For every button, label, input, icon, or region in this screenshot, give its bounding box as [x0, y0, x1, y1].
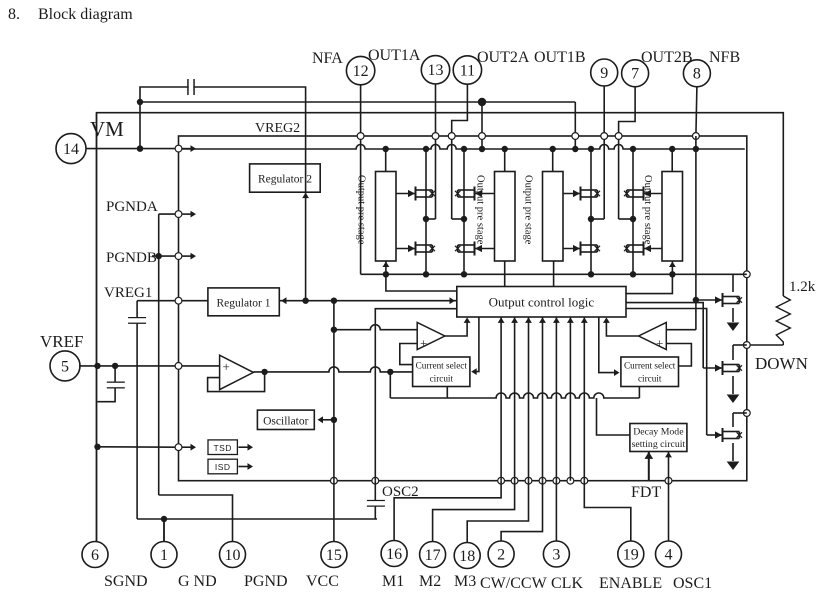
svg-text:circuit: circuit: [638, 374, 662, 384]
node PGNDA entry: [175, 211, 182, 218]
wire control to current select A: [475, 317, 479, 372]
wire OSC1 to decay block: [668, 452, 670, 481]
svg-text:Output pre stage: Output pre stage: [642, 175, 653, 245]
block Regulator 1: [208, 288, 279, 316]
wire 1.2k to block: [750, 344, 783, 346]
arrow into control logic: [498, 317, 505, 323]
wire rail to pre-stage: [552, 149, 554, 172]
capacitor C2 VREG1: [128, 318, 146, 323]
pin 19 ENABLE: [618, 541, 644, 567]
wire OSC2 cap branch: [374, 481, 376, 519]
junction: [261, 369, 267, 375]
wire control to Q10 gate: [626, 303, 703, 368]
block output pre stage 1: [376, 172, 397, 262]
junction PGNDB: [156, 253, 162, 259]
node boundary crossing: [567, 477, 574, 484]
wire VCC stub: [333, 481, 335, 542]
svg-text:3: 3: [552, 546, 560, 563]
node boundary crossing: [331, 477, 338, 484]
wire VREG1 to regulator1: [182, 300, 208, 302]
svg-text:OUT2B: OUT2B: [641, 49, 693, 66]
node boundary crossing: [743, 410, 750, 417]
svg-text:TSD: TSD: [213, 443, 232, 453]
wire VM drop right: [574, 102, 576, 149]
pin 13 OUT1A: [421, 56, 449, 84]
wire control signal: [569, 317, 571, 481]
junction: [550, 146, 556, 152]
svg-text:12: 12: [353, 63, 369, 80]
pin 10 PGND: [220, 542, 246, 568]
arrow FDT into decay block: [644, 452, 653, 459]
svg-text:Output control logic: Output control logic: [489, 295, 595, 310]
pin 4 OSC1: [656, 541, 682, 567]
node boundary crossing: [479, 133, 486, 140]
wire SGND frame to 1.2k: [97, 113, 784, 542]
junction: [137, 145, 143, 151]
wire VREG2 column: [305, 136, 307, 301]
junction: [94, 363, 100, 369]
pin 6 SGND: [82, 542, 108, 568]
wire control signal: [583, 317, 585, 481]
wire SGND left frame: [96, 113, 98, 541]
arrow OSC1 into decay block: [665, 452, 672, 458]
wire TSD out: [238, 446, 248, 448]
wire half-bridge column: [425, 149, 427, 274]
arrow current sink A: [727, 323, 740, 332]
pin 1 G ND: [151, 542, 177, 568]
wire to GND pin: [163, 519, 165, 541]
arrow into oscillator: [318, 416, 324, 423]
wire bus to current select B: [638, 386, 640, 398]
wire comparator A plus input: [400, 344, 417, 365]
wire VREG1: [137, 300, 175, 302]
arrow ISD out: [248, 463, 254, 470]
junction rail: [461, 146, 467, 152]
junction: [137, 145, 143, 151]
wire comparator B output: [606, 323, 638, 336]
svg-text:VREF: VREF: [40, 332, 83, 351]
node boundary crossing: [432, 133, 439, 140]
transistor Q7: [624, 187, 662, 201]
wire VREG1 cap branch: [136, 301, 138, 519]
node boundary crossing: [372, 477, 379, 484]
wire comparator A upper input: [334, 325, 417, 330]
svg-text:FDT: FDT: [631, 484, 661, 501]
wire rail to pre-stage: [671, 149, 673, 172]
capacitor C3 VREF: [107, 382, 125, 387]
wire control signal: [542, 317, 544, 481]
wire Q11 source: [732, 443, 734, 461]
wire OUT1A column: [435, 83, 437, 219]
pin 7 OUT2B: [622, 60, 649, 87]
wire OUT1B column: [603, 86, 605, 219]
wire OSC2 to control logic: [375, 309, 457, 481]
wire control signal: [514, 317, 516, 481]
wire VREF cap branch: [114, 366, 116, 382]
svg-text:Output pre stage: Output pre stage: [523, 175, 534, 245]
transistor Q6: [563, 242, 600, 256]
svg-text:NFA: NFA: [312, 50, 343, 67]
wire Q11 drain: [732, 413, 734, 427]
arrow TSD out: [248, 444, 254, 451]
wire control signal: [555, 317, 557, 481]
svg-text:Oscillator: Oscillator: [263, 415, 309, 427]
junction bus: [588, 271, 594, 277]
block TSD: [208, 440, 237, 455]
pin 16 M1: [381, 541, 407, 567]
wire comparator B upper input: [666, 329, 696, 331]
junction: [502, 146, 508, 152]
wire output tap: [619, 218, 633, 220]
pin 15 VCC: [321, 542, 347, 568]
svg-text:16: 16: [386, 546, 402, 563]
svg-text:6: 6: [91, 547, 99, 564]
wire Q9 source: [732, 308, 734, 322]
arrow PGNDA: [191, 211, 197, 218]
wire VM: [86, 148, 175, 150]
pin 17 M2: [420, 542, 446, 568]
svg-text:+: +: [223, 359, 230, 374]
transistor Q9 body: [696, 293, 742, 307]
svg-text:OUT1A: OUT1A: [368, 47, 421, 64]
junction bus: [423, 271, 429, 277]
arrow VM: [191, 145, 197, 152]
arrow into regulator2 bottom: [302, 193, 309, 199]
wire cap to SGND: [98, 388, 116, 402]
wire Q9 drain: [732, 274, 734, 292]
arrow current sink B: [727, 395, 740, 404]
wire pre-stage2 to control: [504, 261, 506, 287]
junction: [387, 369, 393, 375]
wire decay block input: [597, 398, 630, 435]
svg-text:VREG2: VREG2: [255, 121, 300, 136]
svg-text:OSC2: OSC2: [382, 484, 419, 500]
block Decay Mode setting circuit: [630, 424, 687, 452]
block Regulator 2: [250, 164, 321, 192]
wire ISD out: [238, 466, 248, 468]
svg-text:DOWN: DOWN: [755, 354, 808, 373]
junction output node: [630, 216, 636, 222]
svg-text:PGND: PGND: [244, 573, 288, 590]
svg-text:11: 11: [460, 62, 475, 79]
capacitor C1: [188, 78, 194, 96]
wire mode select bus: [390, 393, 639, 398]
junction: [669, 146, 675, 152]
junction: [693, 297, 699, 303]
node boundary crossing: [665, 477, 672, 484]
svg-text:OUT2A: OUT2A: [477, 49, 530, 66]
wire control to Q11 gate: [626, 309, 707, 436]
wire NFA sense column: [360, 84, 362, 274]
svg-text:2: 2: [497, 546, 505, 563]
svg-text:15: 15: [326, 547, 342, 564]
block output pre stage 2: [495, 172, 516, 262]
svg-text:1: 1: [160, 547, 168, 564]
wire Q11 drain to edge: [733, 412, 747, 414]
arrow into regulator1: [281, 297, 287, 304]
junction: [112, 363, 118, 369]
arrow into control logic: [525, 317, 532, 323]
pin 5 VREF: [50, 351, 80, 381]
svg-text:OSC1: OSC1: [673, 575, 712, 592]
wire Q10 drain to edge: [733, 344, 747, 346]
node boundary crossing: [525, 477, 532, 484]
arrow into current select B: [614, 369, 620, 376]
arrow PGNDB: [191, 253, 197, 260]
wire CW/CCW: [501, 481, 542, 541]
arrow into control logic: [553, 317, 560, 323]
pin 3 CLK: [543, 541, 569, 567]
svg-text:9: 9: [600, 65, 608, 82]
wire rail to pre-stage: [504, 149, 506, 172]
arrow into control logic: [567, 317, 574, 323]
arrow comparator A to control: [464, 317, 471, 323]
wire osc feed: [319, 419, 334, 421]
arrow into control logic: [581, 317, 588, 323]
pin 12 NFA: [346, 56, 374, 84]
wire op-amp output down: [389, 372, 391, 398]
wire M3: [467, 481, 528, 543]
transistor Q1: [396, 187, 435, 201]
svg-text:17: 17: [425, 547, 441, 564]
block Output control logic: [457, 287, 626, 318]
svg-text:5: 5: [61, 358, 69, 375]
svg-text:G ND: G ND: [178, 573, 217, 590]
arrow current sink C: [727, 462, 740, 471]
wire M2: [433, 481, 515, 542]
wire PGND bracket down: [158, 214, 160, 495]
arrow into pre-stage 4: [669, 262, 676, 268]
wire sense bus: [361, 273, 747, 275]
transistor Q10 body: [703, 361, 742, 375]
node boundary crossing: [743, 271, 750, 278]
wire output tap: [452, 218, 464, 220]
capacitor C4 OSC2: [367, 501, 385, 506]
junction rail: [588, 146, 594, 152]
svg-text:19: 19: [623, 546, 639, 563]
block output pre stage 3: [543, 172, 564, 262]
node boundary crossing: [615, 133, 622, 140]
wire PGNDB: [152, 255, 175, 257]
wire NFB drop: [696, 87, 697, 136]
block output pre stage 4: [662, 172, 683, 262]
wire regulator1 to control logic: [280, 300, 457, 302]
wire OUT2A column: [452, 84, 468, 219]
pin 9 OUT1B: [591, 59, 618, 86]
svg-text:18: 18: [459, 548, 475, 565]
block ISD: [208, 459, 237, 474]
svg-text:circuit: circuit: [430, 374, 454, 384]
transistor Q11 body: [707, 428, 742, 442]
node boundary crossing: [175, 444, 182, 451]
transistor Q3: [455, 187, 495, 201]
pin 2 CW/CCW: [488, 541, 514, 567]
junction bus: [630, 271, 636, 277]
wire VM bypass capacitor branch: [140, 87, 306, 148]
junction rail: [423, 146, 429, 152]
junction comparator feed: [331, 327, 337, 333]
wire output tap: [591, 218, 604, 220]
wire rail to pre-stage: [385, 149, 387, 172]
arrow into control logic: [511, 317, 518, 323]
junction: [669, 271, 675, 277]
wire comparator B plus input: [666, 344, 691, 367]
wire sense A to control: [386, 274, 457, 291]
svg-text:Block diagram: Block diagram: [38, 6, 133, 23]
transistor Q2: [396, 242, 435, 256]
node boundary crossing: [448, 133, 455, 140]
junction: [137, 99, 143, 105]
wire VREF to op-amp: [182, 365, 220, 367]
wire OUT2B column: [619, 87, 636, 219]
node boundary crossing: [693, 133, 700, 140]
comparator A: [417, 323, 445, 350]
svg-text:M2: M2: [419, 573, 441, 590]
svg-text:Current select: Current select: [416, 361, 468, 371]
node boundary crossing: [498, 477, 505, 484]
svg-text:14: 14: [63, 141, 79, 158]
wire comparator A output: [445, 323, 467, 336]
transistor Q5: [563, 187, 600, 201]
block Oscillator: [257, 410, 314, 429]
arrow into pre-stage 1: [382, 262, 389, 268]
svg-text:7: 7: [631, 66, 639, 83]
junction: [383, 146, 389, 152]
resistor R1 1.2k: [776, 296, 790, 345]
wire control signal: [528, 317, 530, 481]
wire TSD feed: [98, 446, 176, 448]
wire half-bridge column: [463, 149, 465, 274]
pin 8 NFB: [683, 60, 710, 87]
block Current select circuit B: [621, 357, 679, 387]
svg-text:SGND: SGND: [104, 573, 148, 590]
arrow into control logic: [539, 317, 546, 323]
wire op-amp feedback: [208, 372, 265, 392]
wire GND bus: [137, 518, 377, 520]
wire VM rail: [182, 145, 745, 150]
junction: [331, 298, 337, 304]
svg-text:Output pre stage: Output pre stage: [356, 175, 367, 245]
node boundary crossing: [357, 133, 364, 140]
node PGNDB entry: [175, 253, 182, 260]
junction GND pin: [161, 516, 167, 522]
svg-text:M1: M1: [382, 573, 404, 590]
wire op-amp output: [253, 367, 413, 372]
node boundary crossing: [175, 363, 182, 370]
comparator B: [639, 323, 667, 350]
junction output node: [588, 216, 594, 222]
junction: [478, 98, 486, 106]
svg-text:CLK: CLK: [551, 575, 583, 592]
wire VM top distribution: [140, 101, 575, 103]
wire ENABLE: [584, 481, 631, 541]
wire VM drop centre: [481, 102, 483, 149]
node boundary crossing: [175, 297, 182, 304]
wire VCC column: [333, 301, 335, 481]
svg-text:PGNDB: PGNDB: [106, 250, 157, 266]
junction oscillator feed: [331, 417, 337, 423]
wire control signal: [500, 317, 502, 481]
junction TSD feed: [94, 444, 100, 450]
svg-text:1.2k: 1.2k: [789, 279, 816, 295]
wire Q10 drain: [732, 345, 734, 360]
svg-text:Decay Mode: Decay Mode: [633, 427, 684, 438]
junction: [693, 146, 699, 152]
svg-text:8.: 8.: [8, 6, 20, 23]
svg-text:Regulator 1: Regulator 1: [217, 298, 271, 310]
junction: [302, 298, 308, 304]
wire OSC1: [668, 481, 670, 541]
svg-text:VCC: VCC: [306, 573, 339, 590]
svg-text:ENABLE: ENABLE: [599, 575, 662, 592]
svg-text:PGNDA: PGNDA: [106, 199, 158, 215]
node boundary crossing: [553, 477, 560, 484]
node VM entry: [175, 145, 182, 152]
svg-text:CW/CCW: CW/CCW: [480, 575, 548, 592]
wire Q10 source: [732, 376, 734, 394]
svg-text:VREG1: VREG1: [104, 285, 152, 301]
svg-text:VM: VM: [90, 117, 124, 141]
junction rail: [630, 146, 636, 152]
svg-text:8: 8: [693, 66, 701, 83]
wire PGNDA: [159, 213, 176, 215]
wire NFB column: [695, 136, 697, 330]
svg-text:NFB: NFB: [709, 49, 740, 66]
transistor Q8: [624, 242, 662, 256]
wire M1: [394, 481, 501, 541]
wire to PGND pin: [159, 495, 233, 541]
arrow into current select A: [471, 368, 477, 375]
svg-text:10: 10: [225, 547, 241, 564]
wire FDT: [648, 452, 650, 481]
junction output node: [423, 216, 429, 222]
wire sense B to control: [626, 274, 672, 293]
inner block boundary: [179, 136, 747, 481]
svg-text:ISD: ISD: [215, 462, 231, 472]
node boundary crossing: [511, 477, 518, 484]
node boundary crossing: [572, 133, 579, 140]
junction bus: [461, 271, 467, 277]
junction: [383, 271, 389, 277]
svg-text:OUT1B: OUT1B: [534, 49, 586, 66]
svg-text:Output pre stage: Output pre stage: [475, 175, 486, 245]
wire control to current select B: [599, 317, 614, 373]
wire CLK: [555, 481, 557, 541]
svg-text:4: 4: [665, 546, 673, 563]
svg-text:M3: M3: [454, 573, 476, 590]
arrow comparator B to control: [603, 317, 610, 323]
wire GND stub: [163, 519, 165, 541]
node boundary crossing: [743, 342, 750, 349]
pin 18 M3: [454, 543, 480, 569]
junction: [572, 146, 578, 152]
svg-text:13: 13: [428, 62, 444, 79]
wire half-bridge column: [590, 149, 592, 274]
wire half-bridge column: [632, 149, 634, 274]
node boundary crossing: [539, 477, 546, 484]
transistor Q4: [455, 242, 495, 256]
arrow TSD feed: [191, 444, 197, 451]
svg-text:Regulator 2: Regulator 2: [258, 174, 312, 186]
op-amp U1: [220, 355, 254, 389]
node boundary crossing: [581, 477, 588, 484]
node boundary crossing: [601, 133, 608, 140]
junction output node: [461, 216, 467, 222]
svg-text:Current select: Current select: [624, 361, 676, 371]
svg-text:+: +: [656, 336, 663, 351]
pin 11 OUT2A: [453, 56, 481, 84]
svg-text:setting circuit: setting circuit: [632, 439, 686, 450]
